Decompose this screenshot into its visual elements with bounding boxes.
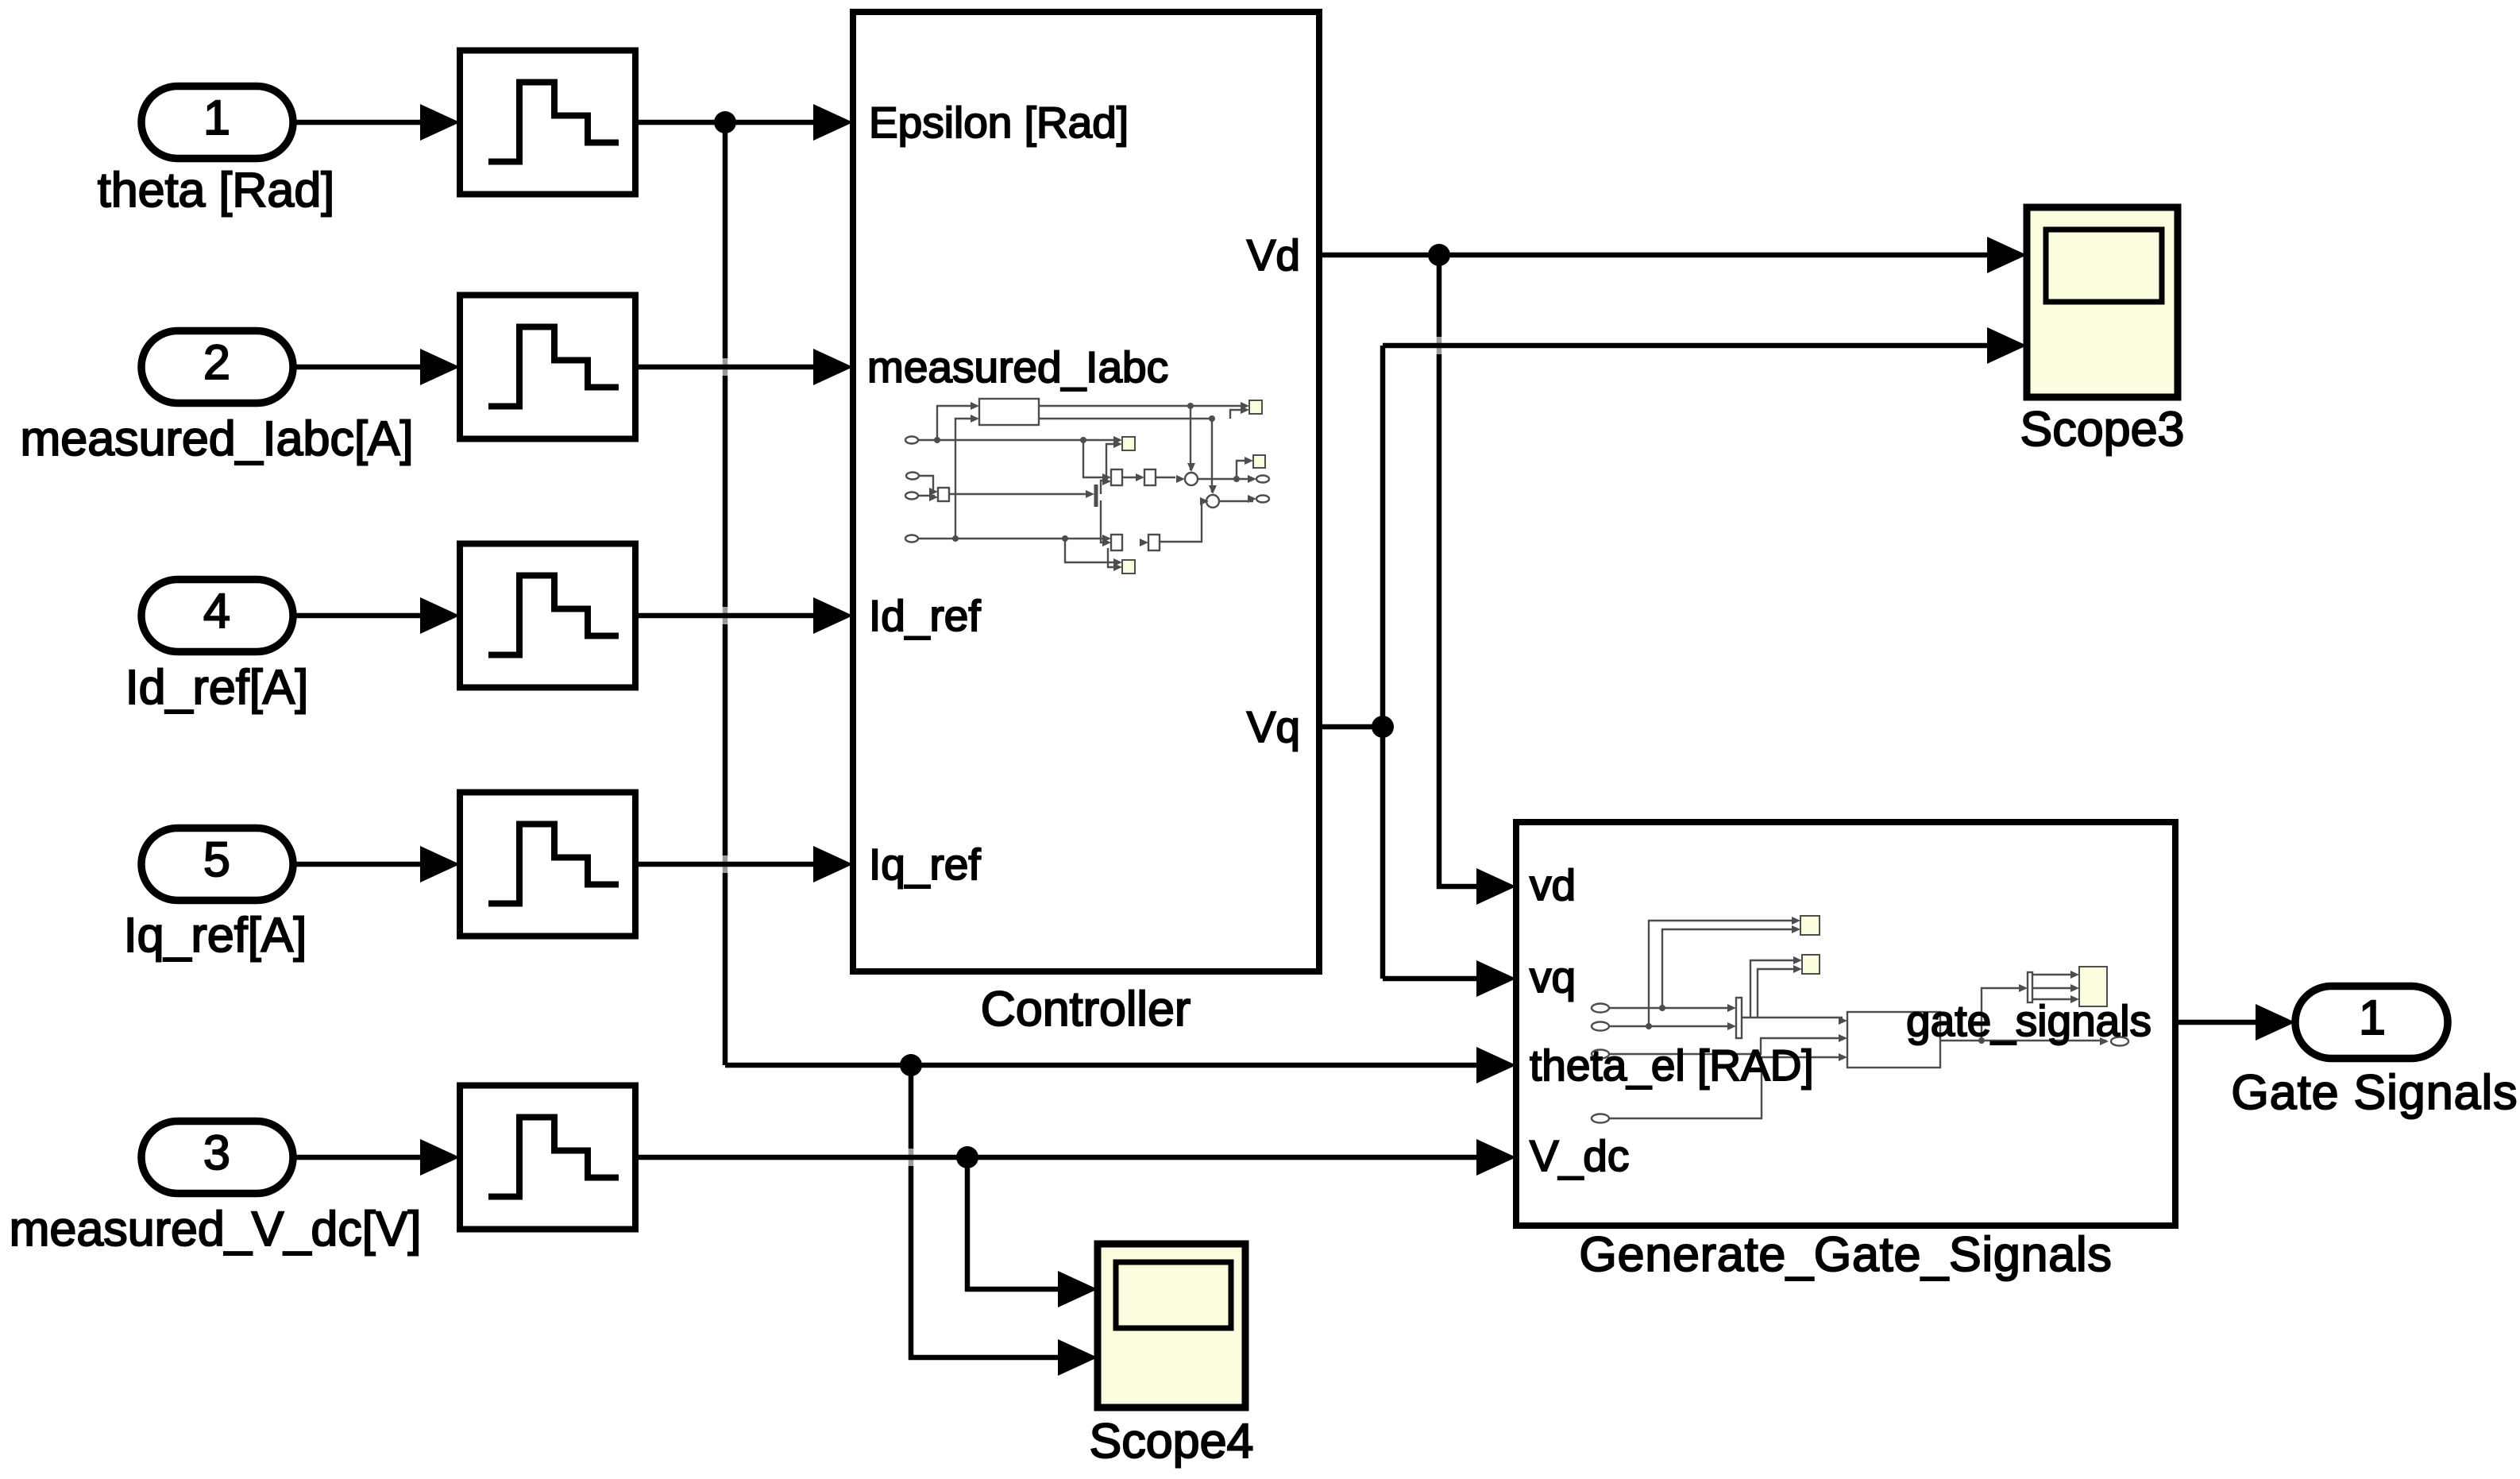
arrowhead into Controller Id_ref (813, 597, 853, 634)
arrowhead into Scope3 upper (1987, 237, 2027, 273)
arrowhead into RT3 (420, 597, 460, 634)
ggs preview input oval g2 (1592, 1022, 1609, 1031)
ggs preview wires (1609, 921, 2106, 1118)
svg-text:Scope4: Scope4 (1090, 1414, 1254, 1468)
svg-text:1: 1 (2359, 991, 2386, 1045)
svg-text:3: 3 (203, 1126, 230, 1180)
ggs preview output oval g5 (2111, 1037, 2128, 1046)
svg-text:Id_ref[A]: Id_ref[A] (125, 660, 309, 714)
preview wires top right (1039, 406, 1245, 492)
wire Vq stub (1319, 724, 1383, 730)
wire row4 Iq_ref (291, 862, 826, 867)
arrowhead into Scope4 lower (1058, 1339, 1098, 1376)
preview input oval c1 (905, 437, 918, 444)
preview small rect L (938, 488, 949, 501)
svg-text:theta_el [RAD]: theta_el [RAD] (1530, 1041, 1814, 1090)
arrowhead into RT1 (420, 104, 460, 141)
scope Scope4 (1098, 1244, 1245, 1408)
junction on V_dc wire (956, 1146, 978, 1168)
preview yellow box TR (1249, 400, 1262, 414)
preview sum circle 1 (1185, 473, 1198, 485)
arrowhead into output port (2256, 1004, 2295, 1041)
arrowhead into GGS vq (1476, 960, 1516, 997)
wire row2 measured_Iabc (291, 365, 826, 370)
svg-text:measured_Iabc[A]: measured_Iabc[A] (20, 411, 413, 465)
preview pair rect r1b (1144, 469, 1156, 485)
input port 2 oval (141, 331, 293, 404)
preview transformer bar (1094, 485, 1098, 507)
wire row3 Id_ref (291, 613, 826, 619)
svg-text:Iq_ref: Iq_ref (869, 840, 981, 889)
preview mini arrows (929, 402, 1256, 571)
svg-text:theta [Rad]: theta [Rad] (98, 163, 334, 217)
CONTROLLER PREVIEW (905, 399, 1269, 573)
arrowhead into GGS theta_el (1476, 1047, 1516, 1083)
GGS PREVIEW (1592, 916, 2128, 1123)
ggs preview yellow box B (1802, 955, 1820, 974)
wire branch to Scope4 upper x=1218 (967, 1157, 1071, 1289)
svg-text:Iq_ref[A]: Iq_ref[A] (124, 908, 307, 962)
preview yellow box R2 (1253, 455, 1265, 468)
rate transition block 1 (460, 51, 635, 195)
ggs preview mini arrows (1727, 917, 2109, 1061)
svg-text:Generate_Gate_Signals: Generate_Gate_Signals (1579, 1227, 2112, 1281)
junction on Vq wire (1372, 716, 1394, 738)
ggs preview junction dots (1646, 1005, 1985, 1044)
svg-text:Vd: Vd (1247, 230, 1300, 280)
preview wires to box M (1083, 440, 1118, 480)
arrowhead into RT5 (420, 1139, 460, 1176)
svg-text:vq: vq (1530, 952, 1576, 1002)
svg-text:1: 1 (203, 91, 230, 145)
arrowhead into GGS vd (1476, 868, 1516, 905)
subsystem Controller (853, 12, 1319, 971)
junction on theta_el wire (900, 1054, 922, 1076)
preview pair rect r2b (1148, 535, 1160, 550)
preview wires left (918, 406, 1108, 539)
wire Vq vertical x=1741 (1380, 346, 1386, 979)
input port 1 oval (141, 87, 293, 159)
preview top rect block (979, 399, 1039, 425)
wire Vq to Scope3 (1383, 343, 2000, 349)
arrowhead into Scope3 lower (1987, 327, 2027, 364)
ggs preview mux bar (1736, 998, 1742, 1038)
ARROWHEADS (420, 104, 2295, 1376)
junction on theta wire (714, 111, 736, 133)
arrowhead into Scope4 upper (1058, 1271, 1098, 1307)
svg-text:Id_ref: Id_ref (869, 591, 981, 640)
rate transition block 5 (460, 1086, 635, 1230)
ggs preview yellow box A (1800, 916, 1820, 935)
preview pair rect r1a (1111, 469, 1122, 485)
preview output oval c5 (1256, 476, 1269, 483)
preview sum circle 2 (1206, 495, 1219, 508)
wire Vd branch down to vd x=1812 (1439, 255, 1489, 886)
rate transition block 2 (460, 295, 635, 439)
svg-text:Controller: Controller (981, 982, 1191, 1036)
rate transition block 3 (460, 544, 635, 688)
ggs preview input oval g4 (1592, 1114, 1609, 1123)
preview input oval c2 (906, 473, 919, 480)
preview output oval c6 (1256, 496, 1269, 503)
arrowhead into GGS V_dc (1476, 1139, 1516, 1176)
preview input oval c4 (905, 535, 918, 543)
svg-text:gate_signals: gate_signals (1906, 996, 2151, 1045)
scope Scope3 (2027, 207, 2178, 397)
arrowhead into RT2 (420, 349, 460, 385)
wire row5 V_dc (291, 1155, 1489, 1160)
preview wires mid (1065, 461, 1253, 567)
svg-text:vd: vd (1530, 860, 1576, 909)
svg-text:measured_V_dc[V]: measured_V_dc[V] (10, 1202, 422, 1256)
ggs preview input oval g1 (1592, 1004, 1609, 1013)
subsystem Generate_Gate_Signals (1516, 822, 2175, 1226)
junction on Vd wire (1428, 244, 1450, 266)
ggs preview input oval g3 (1592, 1050, 1609, 1059)
wire gray crossing stubs (725, 337, 1439, 1166)
input port 5 oval (141, 828, 293, 901)
wire gate_signals output (2175, 1020, 2267, 1025)
preview yellow box B (1122, 560, 1135, 573)
preview input oval c3 (905, 492, 918, 500)
svg-text:Gate Signals: Gate Signals (2231, 1065, 2518, 1119)
arrowhead into Controller Epsilon (813, 104, 853, 141)
input port 4 oval (141, 580, 293, 652)
wire row1 theta (291, 120, 826, 126)
svg-text:Scope3: Scope3 (2020, 402, 2185, 456)
wire theta vertical trunk x=913 (723, 122, 728, 1065)
output port 1 oval (2295, 987, 2448, 1059)
input port 3 oval (141, 1122, 293, 1194)
ggs preview demux bar (2028, 972, 2032, 1002)
svg-text:Vq: Vq (1247, 702, 1300, 751)
wire Vd to Scope3 (1319, 253, 2000, 258)
wire branch to Scope4 lower x=1147 (911, 1065, 1071, 1357)
svg-text:measured_Iabc: measured_Iabc (867, 342, 1168, 392)
ggs preview yellow box C (2079, 967, 2107, 1006)
arrowhead into RT4 (420, 846, 460, 882)
wire theta_el horizontal to Generate_Gate_Signals (725, 1063, 1489, 1068)
preview junction dots (934, 403, 1240, 542)
preview pair rect r2a (1111, 535, 1122, 550)
ggs preview center block (1847, 1012, 1940, 1068)
preview yellow box M (1122, 437, 1135, 450)
svg-text:2: 2 (203, 335, 230, 389)
wire Vq branch to vq (1383, 976, 1489, 982)
svg-text:5: 5 (203, 832, 230, 886)
svg-text:Epsilon [Rad]: Epsilon [Rad] (869, 98, 1129, 147)
svg-text:4: 4 (203, 584, 230, 638)
rate transition block 4 (460, 793, 635, 936)
svg-text:V_dc: V_dc (1530, 1131, 1629, 1180)
arrowhead into Controller measured_Iabc (813, 349, 853, 385)
JUNCTION DOTS (714, 111, 1450, 1168)
arrowhead into Controller Iq_ref (813, 846, 853, 882)
